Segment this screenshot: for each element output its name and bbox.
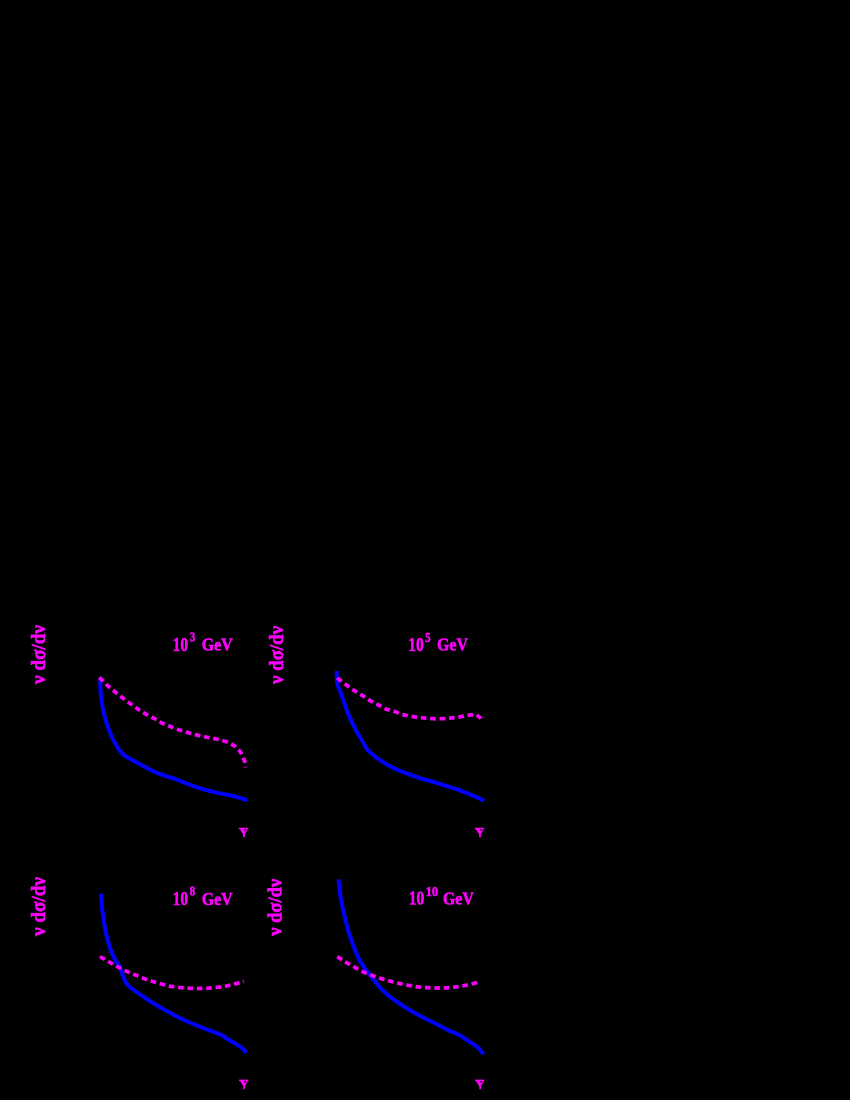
svg-text:10: 10 [173, 634, 189, 656]
panel 3 magenta dashed curve [100, 957, 244, 989]
svg-text:10: 10 [173, 888, 189, 910]
panel 2 magenta dashed curve [338, 678, 483, 722]
svg-text:10: 10 [426, 884, 439, 899]
panel 1 title "10^3 GeV" [173, 630, 233, 657]
svg-text:GeV: GeV [202, 635, 233, 655]
svg-text:ν dσ/dν: ν dσ/dν [28, 625, 50, 685]
panel 3 blue solid curve [101, 894, 247, 1053]
svg-text:10: 10 [409, 888, 425, 910]
svg-text:8: 8 [190, 884, 195, 899]
svg-text:5: 5 [425, 630, 430, 645]
panel 2 blue solid curve [337, 671, 484, 801]
svg-text:ν dσ/dν: ν dσ/dν [265, 879, 287, 937]
panel 4 blue solid curve [339, 879, 484, 1054]
svg-text:ν dσ/dν: ν dσ/dν [28, 877, 50, 937]
svg-text:10: 10 [408, 634, 424, 656]
panel 4 magenta dashed curve [337, 957, 481, 988]
panel 3 title "10^8 GeV" [173, 884, 233, 910]
panel 1 x-axis label "v" [239, 828, 249, 838]
svg-text:GeV: GeV [202, 889, 233, 909]
panel 4 x-axis label "v" [475, 1080, 485, 1090]
panel 2 x-axis label "v" [475, 828, 485, 838]
svg-text:ν dσ/dν: ν dσ/dν [266, 626, 288, 685]
svg-text:GeV: GeV [437, 635, 468, 655]
panel 2 title "10^5 GeV" [408, 630, 468, 656]
svg-text:GeV: GeV [443, 889, 474, 909]
panel 4 title "10^10 GeV" [409, 884, 474, 910]
panel 3 x-axis label "v" [239, 1080, 249, 1090]
panel 1 magenta dashed curve [99, 677, 245, 767]
panel 1 blue solid curve [100, 680, 247, 801]
svg-text:3: 3 [190, 630, 195, 645]
